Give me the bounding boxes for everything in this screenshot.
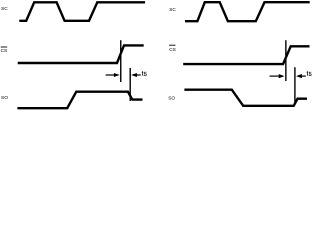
arrow pointing left toward t5 interval (left panel) [131, 73, 141, 77]
reference line at CS rising edge (left panel) [120, 40, 122, 82]
overline of CS (left panel) [1, 46, 8, 48]
svg-text:CS: CS [169, 47, 176, 53]
wire SC waveform (right panel) [185, 2, 310, 21]
reference line at SO disable edge (left panel) [129, 68, 131, 101]
arrow pointing left toward t5 interval (right panel) [296, 74, 306, 78]
svg-text:SO: SO [1, 95, 8, 101]
svg-text:5: 5 [309, 72, 312, 78]
svg-text:SC: SC [1, 6, 8, 12]
arrow pointing right toward t5 interval (right panel) [270, 74, 285, 78]
wire SC waveform (left panel) [19, 2, 145, 21]
svg-text:CS: CS [1, 48, 8, 54]
wire CS waveform (right panel) [183, 46, 309, 64]
overline of CS (right panel) [169, 44, 176, 46]
wire CS waveform (left panel) [18, 45, 144, 63]
svg-text:5: 5 [144, 72, 147, 78]
wire SO waveform (right panel) [184, 90, 307, 106]
reference line at CS rising edge (right panel) [285, 40, 287, 81]
wire SO waveform (left panel) [17, 92, 142, 109]
svg-text:SC: SC [169, 7, 176, 13]
reference line at SO enable edge (right panel) [294, 67, 296, 104]
svg-text:SO: SO [168, 95, 175, 101]
arrow pointing right toward t5 interval (left panel) [106, 73, 120, 77]
